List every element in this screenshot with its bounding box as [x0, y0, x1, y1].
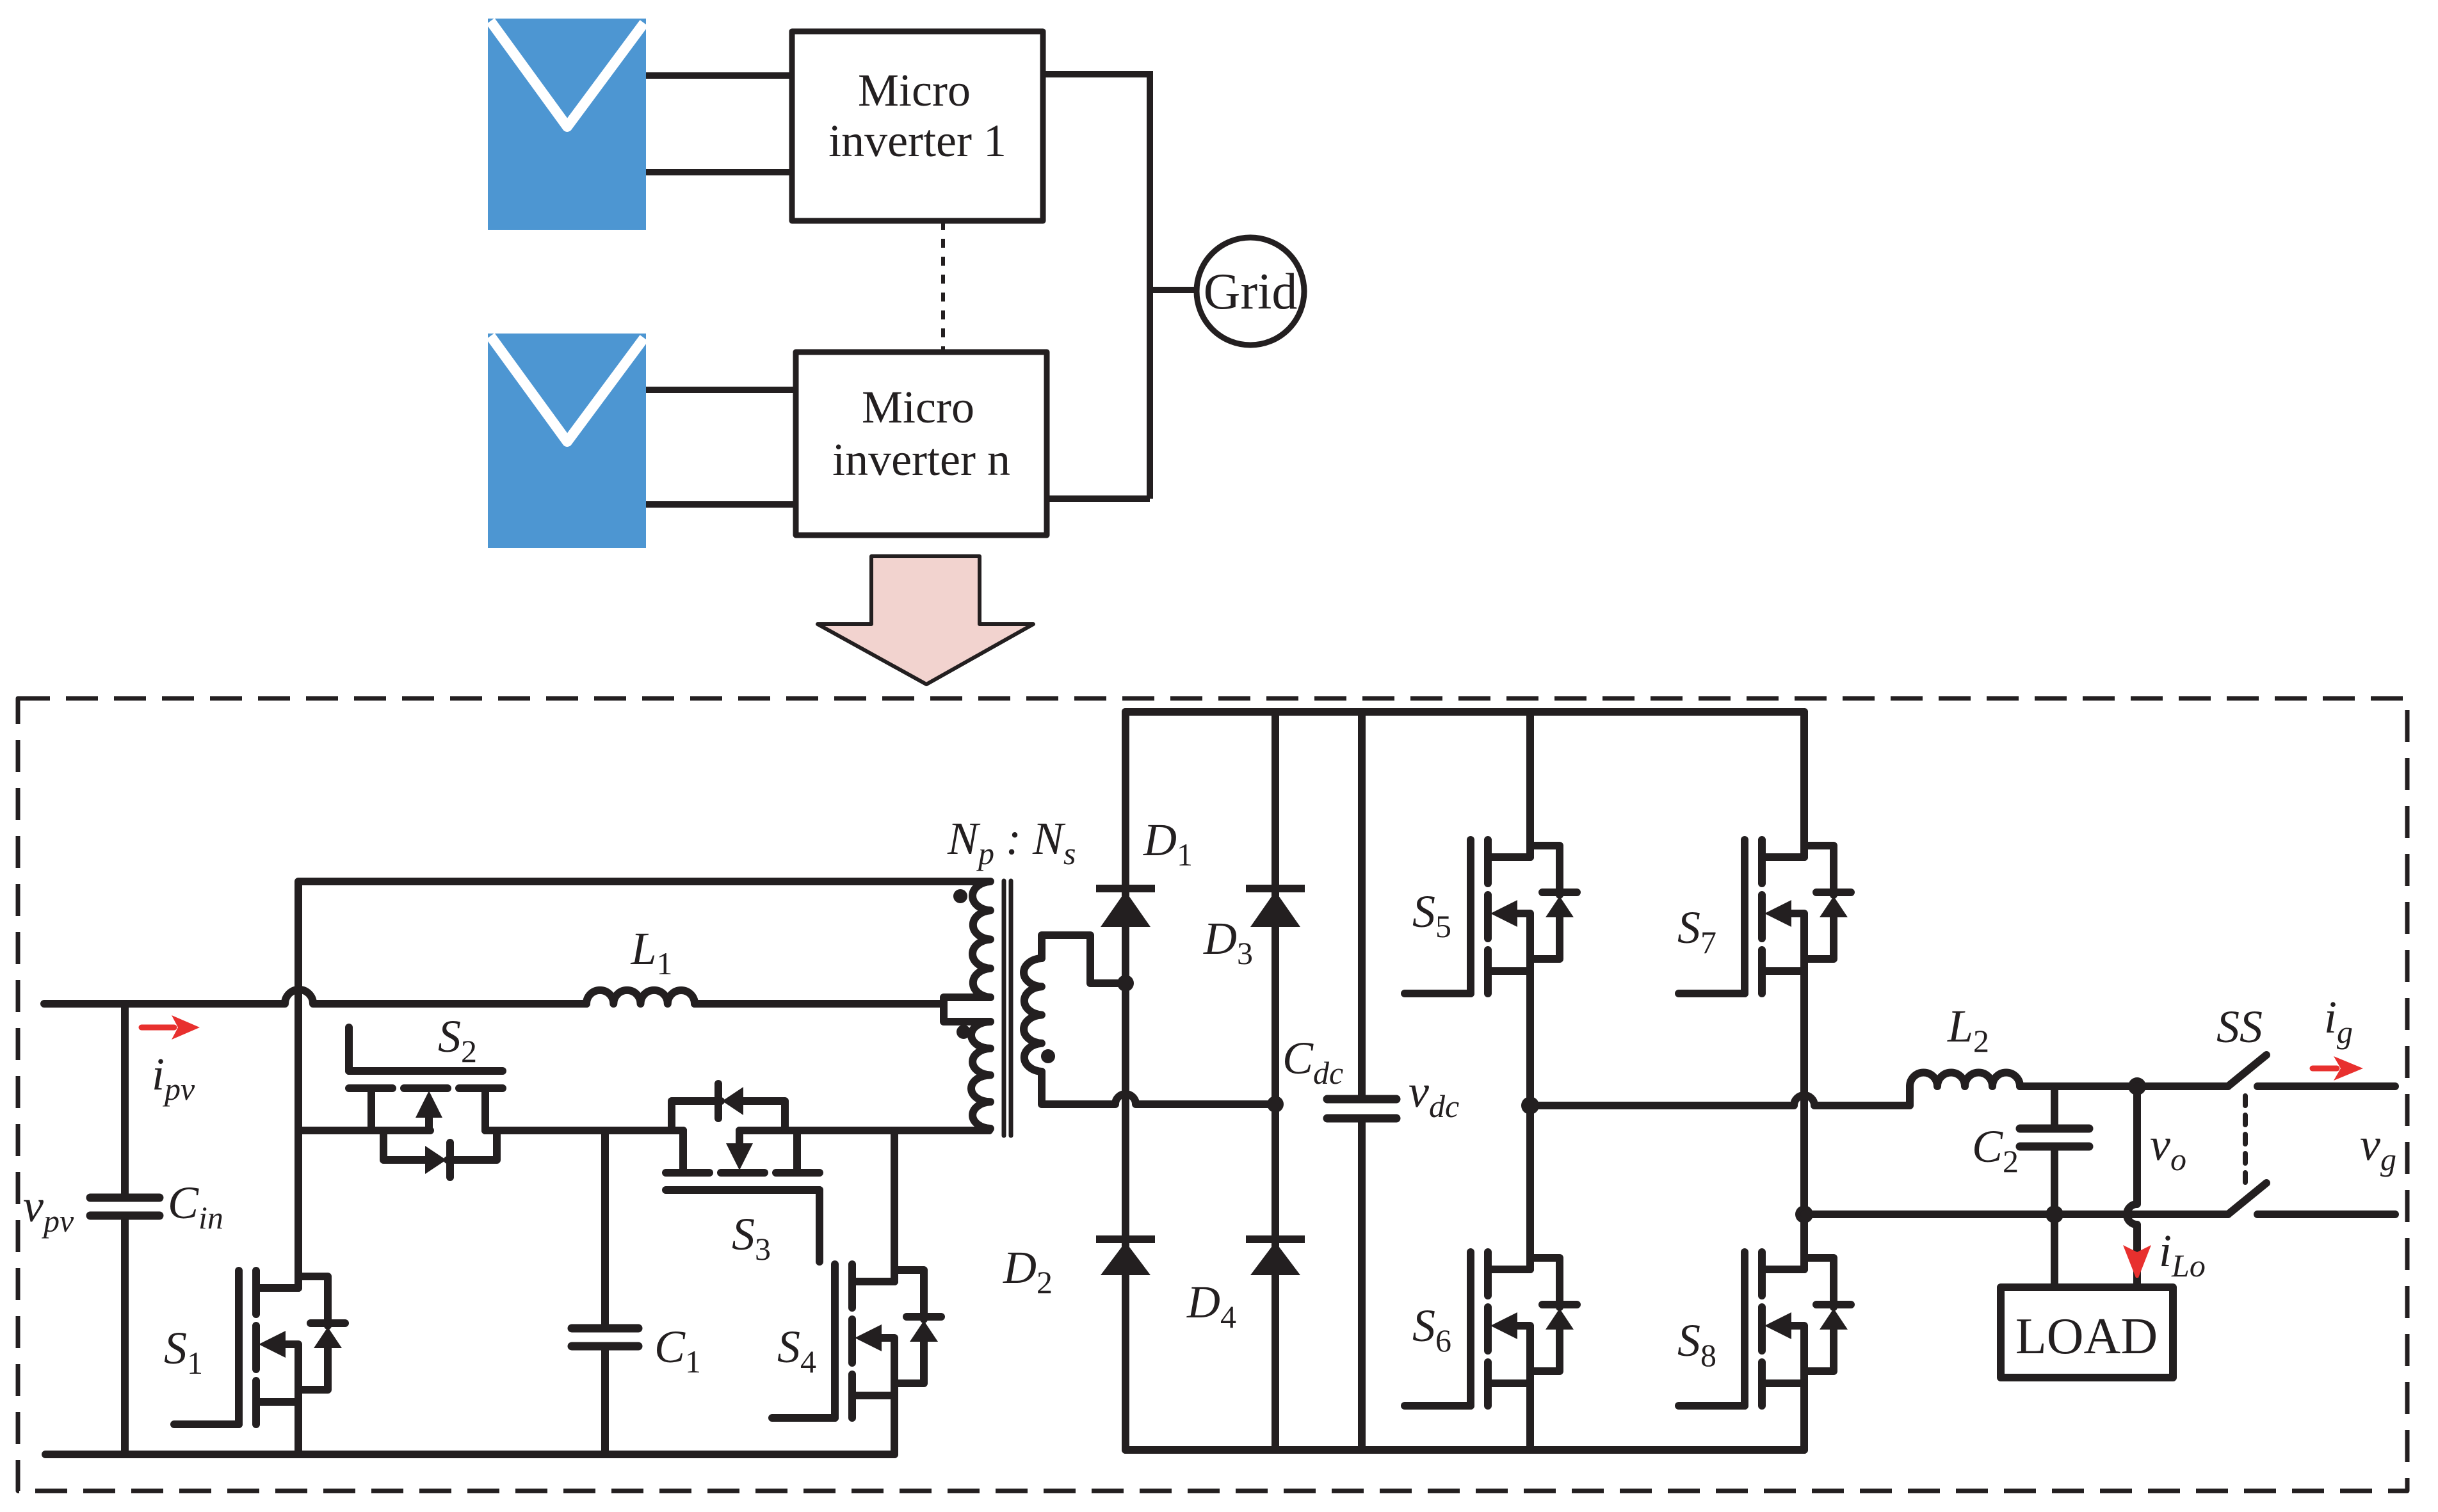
wire inverter n to grid bus	[1047, 495, 1150, 502]
capacitor C1	[572, 1130, 638, 1454]
primary dot top	[953, 889, 967, 903]
primary dot bottom	[957, 1025, 971, 1039]
node A dot	[1521, 1097, 1539, 1114]
wire node A to L2 with hop	[1530, 1086, 1910, 1106]
ipv red arrow	[141, 1015, 200, 1040]
dc bottom rail	[1126, 1446, 1804, 1454]
secondary dot	[1041, 1049, 1055, 1063]
transistor S1	[174, 1271, 345, 1424]
switch SS upper blade	[2228, 1055, 2266, 1086]
svg-text:Cdc: Cdc	[1282, 1033, 1343, 1091]
mid bus right segment	[739, 1127, 989, 1134]
dashed link between inverters	[941, 221, 945, 352]
svg-text:S5: S5	[1412, 886, 1451, 944]
wire stub to grid circle	[1150, 287, 1197, 293]
grid wire lower	[2257, 1210, 2395, 1218]
transistor S6	[1405, 1252, 1577, 1406]
diode D3	[1246, 889, 1305, 927]
svg-text:S3: S3	[732, 1209, 771, 1267]
svg-text:C2: C2	[1972, 1121, 2019, 1179]
dashed border box	[18, 698, 2407, 1491]
svg-text:D3: D3	[1203, 913, 1253, 971]
transformer core	[1004, 881, 1011, 1136]
grid bus vertical	[1147, 71, 1153, 499]
switch SS lower blade	[2228, 1183, 2266, 1214]
svg-text:inverter 1: inverter 1	[828, 115, 1006, 166]
transistor S2	[349, 1027, 503, 1177]
leg S5 S6 wires	[1526, 712, 1534, 1450]
dc top rail	[1126, 708, 1804, 716]
svg-text:D2: D2	[1003, 1242, 1053, 1300]
svg-text:Micro: Micro	[858, 65, 971, 116]
wire panel2 to inverter n bottom	[646, 501, 796, 508]
transistor S3	[666, 1084, 819, 1262]
diode D4	[1246, 1239, 1305, 1275]
rectifier leg B	[1271, 712, 1279, 1450]
PV panel 2	[488, 334, 646, 548]
inductor L2	[1910, 1072, 2020, 1086]
vo sense wire with hop	[2127, 1086, 2137, 1287]
capacitor Cin	[90, 1004, 159, 1454]
diode D2	[1096, 1239, 1155, 1275]
svg-text:vg: vg	[2360, 1119, 2396, 1177]
svg-text:Micro: Micro	[862, 382, 974, 433]
svg-text:S7: S7	[1677, 902, 1716, 960]
transistor S7	[1679, 840, 1851, 993]
wire panel1 to inverter1 top	[646, 72, 792, 79]
capacitor C2	[2020, 1086, 2089, 1287]
grid wire upper	[2257, 1082, 2395, 1090]
node output dot	[2128, 1077, 2146, 1095]
svg-text:D4: D4	[1186, 1276, 1236, 1335]
pink arrow	[818, 556, 1033, 684]
diode D1	[1096, 889, 1155, 927]
transformer primary winding	[944, 881, 990, 1130]
secondary top wire	[1042, 935, 1126, 983]
node C2 load dot	[2046, 1205, 2063, 1223]
transistor S5	[1405, 840, 1577, 993]
svg-text:iLo: iLo	[2159, 1225, 2206, 1283]
capacitor Cdc	[1327, 712, 1396, 1450]
svg-text:S2: S2	[438, 1011, 477, 1069]
svg-text:vo: vo	[2150, 1119, 2186, 1177]
svg-text:C1: C1	[654, 1321, 701, 1379]
svg-text:Grid: Grid	[1204, 264, 1298, 320]
bottom rail left	[45, 1451, 894, 1458]
transistor S4	[772, 1264, 941, 1418]
svg-text:LOAD: LOAD	[2015, 1308, 2158, 1365]
node B dot	[1795, 1205, 1813, 1223]
leg S7 S8 wires	[1800, 712, 1808, 1450]
switch SS dashed link	[2243, 1096, 2248, 1189]
wire panel2 to inverter n top	[646, 387, 796, 393]
node secondary bottom junction	[1267, 1096, 1284, 1113]
svg-text:inverter n: inverter n	[832, 434, 1010, 485]
mid bus left segment	[298, 1127, 430, 1134]
svg-text:ipv: ipv	[152, 1049, 195, 1107]
LOAD box	[2001, 1287, 2173, 1378]
svg-text:Np : Ns: Np : Ns	[947, 813, 1076, 871]
ig red arrow	[2313, 1056, 2363, 1081]
rectifier leg A	[1122, 712, 1129, 1450]
mid bus middle segment	[485, 1127, 683, 1134]
upper loop wire and left vertical	[298, 881, 990, 1130]
svg-text:SS: SS	[2216, 1001, 2263, 1052]
wire L2 to switch	[2020, 1082, 2228, 1090]
transistor S8	[1679, 1252, 1851, 1406]
svg-text:Cin: Cin	[168, 1177, 223, 1235]
grid circle	[1197, 237, 1304, 345]
svg-text:S1: S1	[164, 1323, 203, 1381]
wire inverter1 to grid bus	[1043, 71, 1147, 77]
svg-text:S6: S6	[1412, 1300, 1451, 1358]
node secondary top junction	[1117, 975, 1134, 992]
svg-text:D1: D1	[1143, 814, 1193, 873]
iLo red arrow	[2123, 1245, 2151, 1278]
svg-text:ig: ig	[2324, 992, 2353, 1050]
input rail with hop and L1	[44, 990, 586, 1004]
svg-text:L1: L1	[630, 923, 672, 981]
micro inverter n box	[796, 352, 1047, 535]
svg-text:L2: L2	[1947, 1001, 1989, 1059]
S1 drain wire	[295, 1130, 302, 1288]
svg-text:S4: S4	[777, 1321, 816, 1379]
S4 source wire	[891, 1395, 898, 1454]
svg-text:vdc: vdc	[1409, 1066, 1459, 1124]
micro inverter 1 box	[792, 31, 1043, 221]
wire node B to switch	[1804, 1210, 2228, 1218]
secondary bottom wire with hop	[1042, 1072, 1275, 1104]
wire panel1 to inverter1 bottom	[646, 169, 792, 175]
inductor L1	[586, 990, 695, 1004]
svg-text:vpv: vpv	[23, 1180, 74, 1239]
S4 drain wire	[891, 1130, 898, 1282]
svg-text:S8: S8	[1677, 1315, 1716, 1373]
PV panel 1	[488, 19, 646, 230]
wire L1 to transformer tap	[695, 1000, 944, 1008]
S1 source wire	[295, 1402, 302, 1454]
transformer secondary winding	[1024, 958, 1042, 1072]
